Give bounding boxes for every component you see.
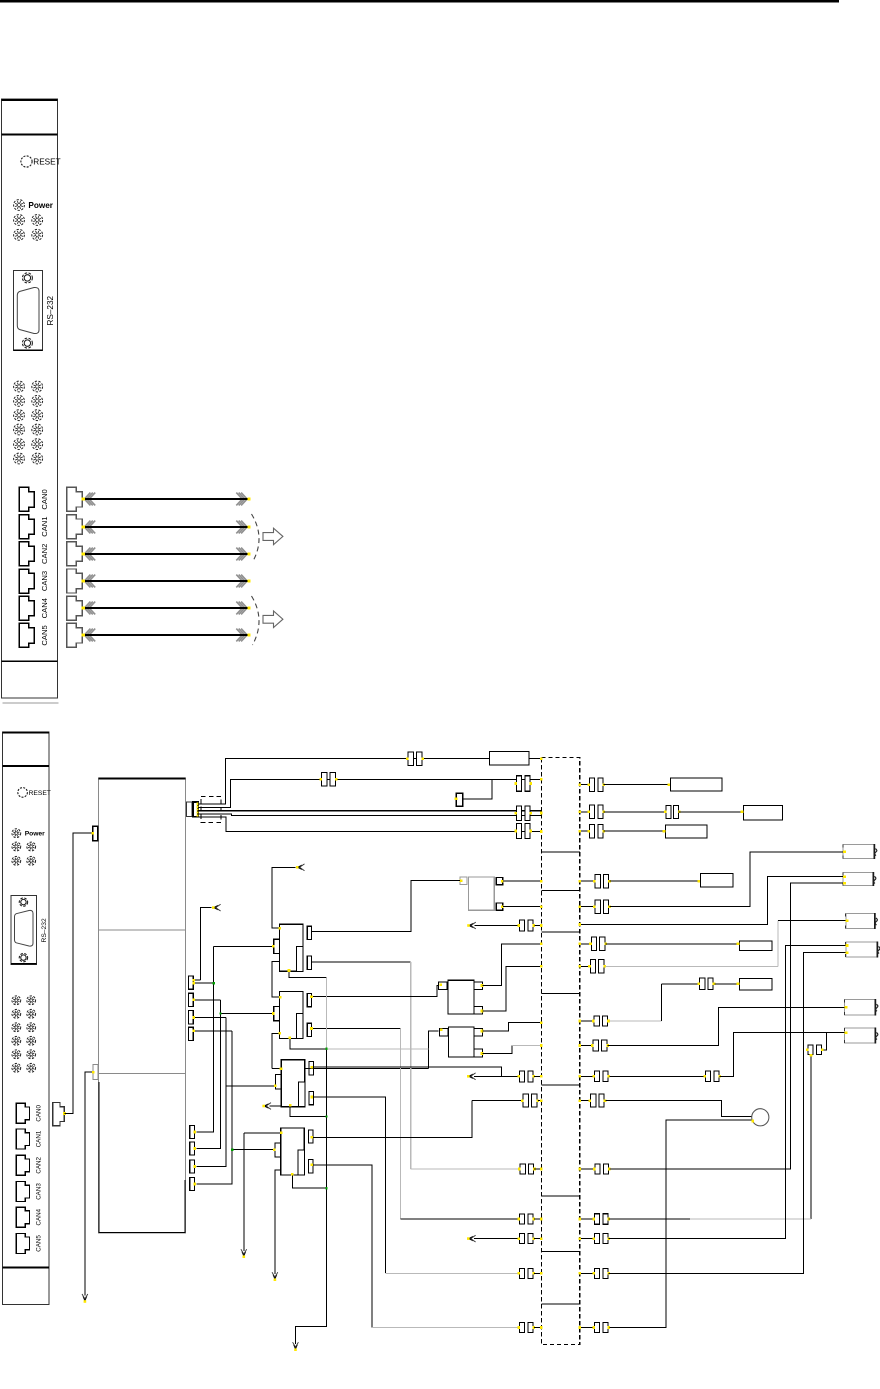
output connector R4 bbox=[846, 941, 880, 957]
wire grey v to net 1219 bbox=[399, 1029, 401, 1220]
connector pair net 1076 right b bbox=[703, 1071, 721, 1082]
connector pair R6 branch bbox=[806, 1045, 824, 1055]
status LED bbox=[32, 229, 43, 240]
connector pair net 1273 right bbox=[592, 1268, 610, 1278]
wire net 1169 to backplane bbox=[534, 1168, 541, 1170]
driver block D2 right pin 2 bbox=[474, 1049, 483, 1057]
wire net 925 to backplane bbox=[534, 925, 541, 927]
connector pair net 966 right bbox=[588, 960, 606, 974]
svg-text:CAN1: CAN1 bbox=[40, 516, 49, 536]
connector pair net 1100 right bbox=[589, 1094, 607, 1107]
arrow shaft 5 bbox=[82, 629, 251, 642]
status LED bbox=[27, 1023, 36, 1032]
connector pair net 1327 right bbox=[592, 1323, 610, 1333]
connector pair net 1169 left bbox=[518, 1164, 536, 1174]
transceiver block U1 left pin bbox=[274, 939, 280, 953]
top black rule bbox=[0, 0, 839, 3]
status LED bbox=[14, 215, 25, 226]
RS-232 screw bottom bbox=[19, 953, 27, 961]
svg-text:CAN4: CAN4 bbox=[40, 597, 49, 618]
reset button circle bbox=[18, 788, 28, 798]
wire net 944 to box bbox=[606, 943, 740, 945]
transceiver block U4 right pin 2 bbox=[309, 1160, 313, 1173]
svg-text:CAN3: CAN3 bbox=[35, 1183, 42, 1200]
wire net 1219 left bbox=[400, 1218, 518, 1220]
wire grey D2 out2 to backplane bbox=[512, 1045, 541, 1047]
connector pair net3 right a bbox=[587, 805, 605, 819]
cable plug 0 bbox=[67, 487, 82, 511]
controller board box bbox=[99, 778, 186, 1233]
wire net 1021 up to 983 bbox=[660, 984, 662, 1021]
wire stub T1 to net2 bbox=[463, 779, 492, 799]
wire net 1327 to backplane bbox=[534, 1327, 541, 1329]
panel bottom compartment divider bbox=[1, 660, 57, 662]
pin P1 on controller left edge bbox=[93, 826, 98, 841]
inline connector pair net2 a bbox=[320, 773, 338, 787]
status LED bbox=[32, 381, 43, 392]
status LED bbox=[12, 842, 21, 851]
bus wire v1 bbox=[196, 946, 213, 1132]
CAN pin A4 bbox=[189, 1027, 194, 1040]
status LED bbox=[12, 1023, 21, 1032]
connector pair net 983 bbox=[698, 978, 716, 990]
controller box divider 1 bbox=[99, 929, 186, 931]
wire to U3 input bbox=[226, 1085, 276, 1087]
arrow terminal U4a bbox=[241, 1249, 247, 1258]
connector pair net 1219 right bbox=[592, 1214, 610, 1225]
bus wire v4 bbox=[196, 1031, 232, 1184]
wire net 1327 up to ring bbox=[609, 1120, 666, 1328]
status LED bbox=[27, 1063, 36, 1072]
controller box bottom edge (dark) bbox=[99, 1232, 186, 1234]
svg-text:CAN0: CAN0 bbox=[35, 1104, 42, 1121]
status LED bbox=[32, 424, 43, 435]
wire net5 to box bbox=[604, 830, 666, 832]
wire grey up to R3 bbox=[777, 921, 779, 967]
wire pin P2 down to arrow bbox=[85, 1072, 93, 1295]
wire net 1076 right lead bbox=[580, 1075, 593, 1077]
wire net 1273 right lead bbox=[580, 1272, 594, 1274]
wire into D2 input bbox=[428, 1031, 438, 1069]
CAN pin B1 bbox=[190, 1125, 195, 1138]
CAN pin A1 bbox=[189, 976, 194, 989]
figure 1: cable plugs with bidirectional arrows bbox=[67, 487, 283, 647]
wire net 1045 to R5 bbox=[608, 1007, 845, 1045]
svg-text:RS–232: RS–232 bbox=[46, 295, 55, 325]
status LED bbox=[32, 439, 43, 450]
CAN2 jack bbox=[19, 542, 34, 566]
wire D2 out1 to backplane bbox=[483, 1023, 542, 1031]
transceiver block U1 right pin 2 bbox=[307, 956, 311, 969]
status LED bbox=[32, 215, 43, 226]
wire net 1273 up to R4b bbox=[609, 953, 846, 1274]
driver block D1 right pin 1 bbox=[474, 982, 483, 990]
inline connector pair net5 bbox=[514, 824, 532, 839]
status LED bbox=[32, 453, 43, 464]
output connector R5 bbox=[845, 999, 878, 1016]
svg-text:RESET: RESET bbox=[33, 157, 60, 166]
connector pair net 907 right bbox=[593, 900, 611, 914]
driver block D2 left pin bbox=[439, 1029, 448, 1037]
wire D2 out2 bbox=[483, 1046, 512, 1054]
bus wire v3 bbox=[196, 1018, 226, 1167]
wire long vertical to arrow bbox=[296, 1049, 327, 1344]
wire net 1076 mid bbox=[609, 1075, 705, 1077]
connector pair net3 right b bbox=[664, 805, 681, 818]
status LED bbox=[12, 996, 21, 1005]
cable plug 5 bbox=[67, 623, 82, 647]
arrow shaft 0 bbox=[82, 493, 251, 506]
wire net 1100 to backplane bbox=[538, 1100, 542, 1102]
wire net 1238 right lead bbox=[580, 1238, 594, 1240]
connector pair net2 right bbox=[587, 778, 605, 792]
wire grey net 1169 left bbox=[411, 1168, 520, 1170]
power block T right pin 2 bbox=[496, 903, 502, 910]
status LED bbox=[27, 856, 36, 865]
panel top edge (thick) bbox=[2, 732, 49, 734]
board-edge connector body bbox=[187, 802, 193, 817]
RS-232 D-sub cutout bbox=[15, 910, 34, 946]
CAN1 jack bbox=[16, 1129, 29, 1149]
status LED bbox=[14, 229, 25, 240]
wire D1 out1 to backplane bbox=[483, 944, 542, 986]
wire T out2 to backplane bbox=[503, 906, 541, 908]
transceiver block U2 right pin 1 bbox=[307, 994, 311, 1007]
wire grey net 1327 left bbox=[372, 1327, 518, 1329]
wire down to arrow U4a bbox=[243, 1133, 245, 1251]
terminator stub T1 bbox=[456, 793, 463, 806]
arrow terminal net EN1 bbox=[296, 864, 305, 871]
grouping arc rows 2-3 bbox=[252, 514, 260, 562]
controller box divider 2 bbox=[99, 1073, 186, 1075]
CAN pin A3 bbox=[189, 1011, 194, 1024]
wire net 1169 right lead bbox=[580, 1168, 594, 1170]
CAN0 jack bbox=[16, 1103, 29, 1123]
status LED bbox=[14, 439, 25, 450]
wire pin A3 bbox=[193, 1017, 226, 1019]
panel outline bbox=[1, 99, 57, 698]
backplane tap stub bbox=[541, 1251, 579, 1253]
dashed outline around connector bbox=[201, 796, 221, 822]
wire net 1100 lead bbox=[472, 1100, 522, 1102]
wire net 1219 mid bbox=[609, 1218, 690, 1220]
component box net 983 right bbox=[740, 979, 773, 990]
controller box lower-right edge (dark) bbox=[184, 1180, 186, 1233]
controller box top edge bbox=[99, 777, 186, 779]
wire net 1219 to backplane bbox=[534, 1218, 541, 1220]
svg-text:CAN5: CAN5 bbox=[40, 625, 49, 645]
cable plug 2 bbox=[67, 542, 82, 566]
transceiver block U4 left pin bbox=[275, 1143, 281, 1157]
wire grey net 1021 bbox=[609, 1020, 661, 1022]
arrow shaft 3 bbox=[82, 575, 251, 588]
connector pair net 1238 left bbox=[517, 1234, 535, 1244]
status LED bbox=[12, 1063, 21, 1072]
backplane dashed box bbox=[541, 758, 579, 1345]
svg-text:CAN2: CAN2 bbox=[40, 544, 49, 564]
wire grey net 966 bbox=[606, 965, 779, 967]
wire net 925 to R2 bbox=[580, 877, 843, 925]
RS-232 screw top bbox=[19, 898, 27, 906]
wire net3 to box bbox=[679, 811, 744, 813]
wire U3 bottom to bus bbox=[290, 1106, 326, 1117]
wire net 907 to R1 bbox=[609, 852, 843, 907]
wire net 1076 lead bbox=[474, 1075, 518, 1077]
CAN pin B4 bbox=[190, 1178, 195, 1191]
connector pair net 1327 left bbox=[517, 1323, 535, 1333]
driver block D1 bbox=[448, 980, 474, 1014]
CAN2 jack bbox=[16, 1155, 29, 1175]
RS-232 connector plate bbox=[14, 270, 43, 350]
wire net 983 lead bbox=[661, 983, 698, 985]
connector pair net 944 right bbox=[589, 937, 607, 951]
connector pair net 1169 right bbox=[593, 1164, 611, 1174]
CAN pin A2 bbox=[189, 993, 194, 1006]
status LED bbox=[27, 996, 36, 1005]
reset button circle bbox=[21, 156, 32, 167]
transceiver block U4 right pin 1 bbox=[309, 1130, 313, 1143]
CAN pin B3 bbox=[190, 1160, 195, 1173]
wire into U4 top bbox=[244, 1132, 281, 1134]
wire T out1 to backplane bbox=[503, 880, 541, 882]
svg-text:RESET: RESET bbox=[29, 790, 51, 797]
transceiver block U2 bbox=[280, 992, 304, 1039]
wire net 1100 right lead bbox=[580, 1100, 590, 1102]
transceiver block U4 bbox=[281, 1128, 305, 1175]
status LED bbox=[12, 1036, 21, 1045]
backplane tap stub bbox=[541, 931, 579, 933]
transceiver block U3 right pin 2 bbox=[309, 1091, 313, 1104]
wire U1 out2 bbox=[312, 961, 411, 963]
wire net 1238 to backplane bbox=[534, 1238, 541, 1240]
board-edge connector contact dots bbox=[197, 803, 199, 805]
figure 2: CAN module front panel (schematic view) bbox=[2, 732, 50, 1305]
arrow terminal bottom bbox=[293, 1342, 299, 1351]
svg-text:CAN1: CAN1 bbox=[35, 1130, 42, 1147]
power block T right pin 1 bbox=[496, 878, 502, 885]
arrow terminal net 1076 bbox=[467, 1073, 476, 1080]
bus wire v2 bbox=[196, 1000, 220, 1149]
CAN5 jack bbox=[19, 623, 34, 647]
CAN5 jack bbox=[16, 1233, 29, 1253]
wire U4 out1 to net 1100 bbox=[312, 1101, 472, 1138]
RS-232 screw bottom bbox=[22, 338, 32, 348]
wire U2 bottom to bus bbox=[290, 1037, 327, 1049]
figure 2: internal wiring schematic bbox=[53, 751, 880, 1351]
svg-text:CAN3: CAN3 bbox=[40, 571, 49, 591]
arrow shaft 4 bbox=[82, 602, 251, 615]
wire U4 bottom to bus bbox=[292, 1175, 326, 1188]
status LED bbox=[32, 410, 43, 421]
output connector R2 bbox=[843, 872, 876, 886]
wire net 4 bbox=[198, 814, 542, 816]
RS-232 D-sub cutout bbox=[17, 287, 39, 333]
arrow shaft 1 bbox=[82, 521, 251, 534]
CAN0 cable plug bbox=[53, 1102, 65, 1125]
backplane tap stub bbox=[541, 851, 579, 853]
wire U1 chain to U2 top bbox=[272, 962, 280, 997]
inline connector pair net2 b bbox=[514, 776, 532, 792]
wire pin A1 to arrow bbox=[201, 908, 212, 981]
backplane tap stub bbox=[541, 1084, 579, 1086]
wire net 1045 right lead bbox=[580, 1045, 593, 1047]
wire U1 bottom to bus bbox=[289, 971, 327, 977]
wire net 1076 to backplane bbox=[534, 1075, 541, 1077]
arrow terminal down bbox=[82, 1294, 88, 1303]
wire U1 enable bbox=[272, 867, 296, 928]
grouping arc rows 5-6 bbox=[252, 596, 260, 645]
backplane tap stub bbox=[541, 1195, 579, 1197]
status LED bbox=[12, 856, 21, 865]
wire net 5 bbox=[198, 817, 542, 832]
output connector R1 bbox=[843, 844, 877, 859]
status LED bbox=[14, 396, 25, 407]
wire pin A1 a bbox=[193, 979, 200, 981]
wire grey net 1219 mid bbox=[690, 1218, 811, 1220]
wire grey v to net 1169 bbox=[410, 962, 412, 1169]
svg-text:Power: Power bbox=[25, 831, 45, 838]
svg-text:CAN4: CAN4 bbox=[35, 1208, 42, 1225]
driver block D1 right pin 2 bbox=[474, 1006, 483, 1014]
arrow terminal net 925 bbox=[467, 922, 476, 929]
cable plug 3 bbox=[67, 569, 82, 593]
transceiver block U3 bbox=[281, 1060, 305, 1107]
CAN3 jack bbox=[16, 1182, 29, 1202]
panel outline bbox=[2, 732, 49, 1305]
wire U1 out1 to block T bbox=[312, 881, 461, 932]
wire D1 out2 to backplane bbox=[483, 966, 542, 1011]
wire net 1169 up to R2b bbox=[609, 883, 843, 1169]
backplane tap stub bbox=[541, 890, 579, 892]
board-edge connector body 2 bbox=[193, 802, 198, 817]
connector pair net 881 right bbox=[593, 874, 611, 888]
component box B1 on top net bbox=[489, 751, 529, 765]
transceiver block U2 left pin bbox=[274, 1007, 280, 1021]
panel bottom compartment divider bbox=[2, 1267, 49, 1269]
component box net2 right bbox=[671, 778, 722, 791]
connector pair net 1100 left bbox=[521, 1094, 539, 1107]
status LED bbox=[12, 1009, 21, 1018]
connector pair net 1076 left bbox=[517, 1071, 535, 1082]
panel top compartment divider bbox=[1, 133, 57, 135]
group arrow 1 bbox=[263, 528, 283, 545]
status LED bbox=[32, 396, 43, 407]
CAN3 jack bbox=[19, 569, 34, 593]
transceiver block U1 right pin 1 bbox=[307, 926, 311, 939]
wire U2 out2 bbox=[312, 1028, 400, 1030]
arrow shaft 2 bbox=[82, 548, 251, 561]
wire pin A4 bbox=[193, 1030, 232, 1032]
power LED bbox=[14, 200, 25, 211]
driver block D2 right pin 1 bbox=[474, 1029, 483, 1037]
svg-text:CAN5: CAN5 bbox=[35, 1235, 42, 1252]
transceiver block U1 bbox=[280, 924, 304, 971]
arrow terminal U4b bbox=[272, 1272, 278, 1281]
wire net3 right lead bbox=[580, 811, 589, 813]
wire CAN0 plug to pin P1 bbox=[64, 833, 92, 1113]
wire net 1021 right lead bbox=[580, 1020, 593, 1022]
status LED bbox=[14, 453, 25, 464]
wire U3 out2 down bbox=[312, 1097, 385, 1273]
wire net 1219 right lead bbox=[580, 1218, 594, 1220]
wire net 1238 lead bbox=[474, 1238, 518, 1240]
connector pair net 1045 right bbox=[591, 1040, 609, 1051]
CAN pin B2 bbox=[190, 1142, 195, 1155]
connector pair net 1076 right bbox=[592, 1071, 610, 1082]
wire net 1273 to backplane bbox=[534, 1272, 541, 1274]
wire net 1076 up to R6 net bbox=[720, 1033, 827, 1077]
wire U3 out1 to net 1076 bbox=[312, 1067, 501, 1076]
panel top compartment divider bbox=[2, 765, 49, 767]
wire chain into U3 top bbox=[272, 1068, 281, 1070]
CAN4 jack bbox=[19, 596, 34, 620]
RS-232 connector plate bbox=[11, 895, 37, 964]
driver block D2 bbox=[449, 1027, 475, 1057]
CAN4 jack bbox=[16, 1207, 29, 1227]
pin P2 on controller left edge bbox=[93, 1064, 98, 1079]
inline connector pair on top net bbox=[406, 752, 424, 766]
wire pin A1 b bbox=[193, 982, 213, 984]
inline connector pair nets 3-4 bbox=[514, 806, 532, 821]
power LED bbox=[12, 829, 21, 838]
ring terminal bbox=[752, 1109, 769, 1126]
svg-text:CAN2: CAN2 bbox=[35, 1156, 42, 1173]
wire grey bus vertical upper bbox=[326, 977, 328, 1049]
output connector R6 bbox=[845, 1028, 878, 1044]
wire grey U2 bottom to D2 feed bbox=[327, 1048, 429, 1050]
CAN0 jack bbox=[19, 487, 34, 511]
wire net 881 to box bbox=[609, 880, 700, 882]
connector pair net 925 left bbox=[517, 920, 535, 931]
RS-232 plate bottom edge bbox=[14, 349, 43, 351]
RS-232 screw top bbox=[22, 273, 32, 283]
component box net3 right bbox=[744, 806, 783, 820]
status LED bbox=[12, 1050, 21, 1059]
wire net 1238 up to R4a bbox=[609, 946, 846, 1239]
status LED bbox=[27, 1009, 36, 1018]
wire to U4 input bbox=[232, 1149, 275, 1151]
wire U3 bottom-left bbox=[270, 1105, 282, 1107]
wire net 2 bbox=[198, 779, 542, 807]
wire net V+ top bbox=[198, 759, 542, 805]
status LED bbox=[14, 424, 25, 435]
wire net 3 bbox=[198, 810, 542, 812]
output connector R3 bbox=[846, 913, 878, 929]
wire net 1119 to ring bbox=[666, 1119, 752, 1121]
wire net3 mid bbox=[604, 811, 666, 813]
wire net 944 right lead bbox=[580, 943, 591, 945]
status LED bbox=[27, 1036, 36, 1045]
wire to R6 bbox=[827, 1032, 845, 1034]
wire net 1100 to ring bbox=[606, 1101, 752, 1117]
wire to U2 input bbox=[220, 1013, 273, 1015]
component box net 881 right bbox=[701, 874, 734, 887]
wire R6 branch long vertical bbox=[810, 1055, 812, 1220]
wire net 983 to box bbox=[715, 983, 740, 985]
panel top edge (thick) bbox=[1, 99, 57, 101]
wire grey net 1273 left bbox=[386, 1272, 519, 1274]
status LED bbox=[14, 381, 25, 392]
wire net2 to box bbox=[604, 784, 671, 786]
group arrow 2 bbox=[263, 611, 283, 628]
wire U2 chain down bbox=[272, 1033, 280, 1068]
wire U4 out2 down bbox=[312, 1165, 372, 1328]
component box net 944 right bbox=[740, 941, 773, 951]
CAN1 jack bbox=[19, 515, 34, 539]
connector pair net 1273 left bbox=[517, 1268, 535, 1278]
arrow terminal net A1 bbox=[212, 904, 221, 911]
wire to U1 input bbox=[214, 945, 274, 947]
